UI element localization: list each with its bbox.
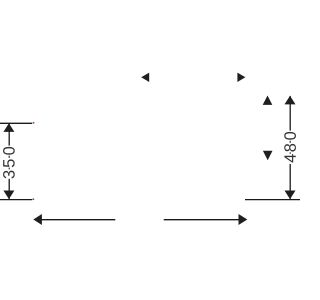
arrowhead bottom-left	[33, 214, 42, 225]
label 350 digit 5 (rotated)	[3, 159, 15, 167]
bottom width dimension line left segment	[42, 219, 116, 221]
dimension line 350 lower segment	[8, 179, 10, 200]
extension tick top-left (350 upper reference)	[0, 122, 32, 124]
range arrow pointing left (top)	[141, 73, 149, 82]
label 480 digit 0 (rotated)	[284, 132, 296, 140]
label 480 digit 8 (rotated)	[284, 144, 296, 152]
dimension line 480 (vertical, right) upper segment	[289, 96, 291, 131]
red dot at end of top-left tick	[33, 122, 35, 124]
extension tick bottom-left (350 lower reference)	[0, 199, 32, 201]
arrowhead 480 down	[285, 191, 296, 200]
range arrow pointing down (right column)	[263, 151, 273, 161]
label 480 digit 4 (rotated)	[284, 154, 295, 162]
extension tick bottom-right (480 lower reference)	[245, 199, 300, 201]
arrowhead 350 down	[3, 191, 14, 200]
dimension line 480 inter-digit dash 2	[289, 152, 291, 154]
arrowhead 350 up	[3, 123, 14, 132]
dimension line 350 inter-digit dash 1	[8, 156, 10, 158]
label 350 digit 3 (rotated)	[3, 171, 15, 179]
red dot at end of bottom-left tick	[33, 198, 35, 200]
bottom width dimension line right segment	[164, 219, 239, 221]
dimension line 350 inter-digit dash 2	[8, 168, 10, 170]
range arrow pointing right (top)	[237, 73, 245, 82]
range arrow pointing up (right column)	[263, 96, 273, 105]
arrowhead bottom-right	[239, 214, 248, 225]
dimension line 480 inter-digit dash 1	[289, 141, 291, 143]
arrowhead 480 up	[285, 96, 296, 105]
label 350 digit 0 (rotated)	[3, 147, 15, 155]
dimension line 350 (vertical, left) upper segment	[8, 123, 10, 145]
dimension line 480 lower segment	[289, 164, 291, 199]
